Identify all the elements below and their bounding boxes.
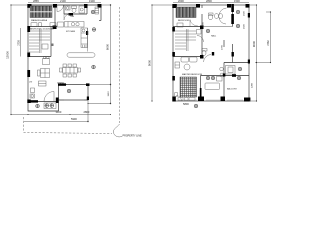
svg-text:1500: 1500 xyxy=(244,23,246,29)
svg-text:2762: 2762 xyxy=(267,40,270,46)
svg-text:9000: 9000 xyxy=(148,59,152,66)
svg-text:3100: 3100 xyxy=(56,110,62,114)
svg-text:KITCHEN: KITCHEN xyxy=(66,31,76,33)
svg-text:MASTER BEDROOM: MASTER BEDROOM xyxy=(182,73,202,76)
svg-text:2800: 2800 xyxy=(84,110,90,114)
svg-text:BEDROOM 1 2100X2865: BEDROOM 1 2100X2865 xyxy=(30,28,55,30)
svg-text:2800: 2800 xyxy=(206,0,212,3)
svg-text:12000: 12000 xyxy=(6,51,10,59)
svg-text:BALCONY: BALCONY xyxy=(227,88,238,91)
svg-text:1900: 1900 xyxy=(89,0,95,3)
svg-text:BEDROOM 2: BEDROOM 2 xyxy=(178,20,191,22)
svg-text:WASHING AREA: WASHING AREA xyxy=(31,19,48,22)
svg-text:5200: 5200 xyxy=(203,21,205,27)
svg-text:2100: 2100 xyxy=(60,0,66,3)
svg-text:DINING: DINING xyxy=(57,83,65,85)
svg-text:2700: 2700 xyxy=(17,40,20,46)
svg-text:HALL: HALL xyxy=(211,35,217,38)
svg-text:1903: 1903 xyxy=(108,91,110,97)
svg-text:1289: 1289 xyxy=(252,82,254,88)
svg-text:PROPERTY LINE: PROPERTY LINE xyxy=(123,135,142,138)
svg-text:1500: 1500 xyxy=(244,10,246,16)
svg-text:5800: 5800 xyxy=(183,102,189,106)
svg-text:1500: 1500 xyxy=(234,0,240,3)
svg-text:T&B: T&B xyxy=(70,16,75,18)
svg-text:2700: 2700 xyxy=(222,44,224,50)
svg-text:8600: 8600 xyxy=(106,43,110,50)
svg-text:2000: 2000 xyxy=(178,0,184,3)
svg-text:2865: 2865 xyxy=(33,0,39,3)
svg-text:9000: 9000 xyxy=(252,40,256,47)
svg-text:5900: 5900 xyxy=(71,117,77,121)
